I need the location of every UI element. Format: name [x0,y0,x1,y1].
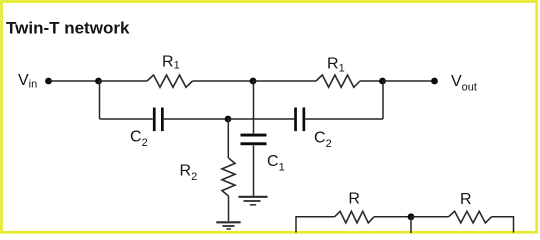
wire R1 right to right junction [360,80,383,82]
svg-text:R: R [348,191,360,208]
wire bottom junction to right R [411,216,449,218]
resistor R (bottom right) zigzag [449,211,492,223]
wire left vertical down [99,81,101,119]
node B junction dot [225,116,232,123]
node right junction dot [379,78,386,85]
wire bottom-left vertical stub [296,217,335,233]
resistor R2 zigzag (vertical) [222,158,235,196]
wire center junction to R1 right [253,80,316,82]
resistor R1 (left) zigzag [147,75,193,87]
node left junction dot [95,78,102,85]
capacitor C2 (left) plates [153,108,156,132]
wire C1 to ground [253,145,255,196]
node Vout terminal dot [431,78,438,85]
wire Vin to left junction [49,80,99,82]
ground under C1 [239,197,268,205]
capacitor C2 (right) plates [294,108,297,132]
wire R2 to ground [228,196,230,221]
node center junction dot (node A) [250,78,257,85]
wire center junction down to C1 [253,81,255,134]
capacitor C1 plates [241,134,267,137]
wire middle rail center segment [164,118,228,120]
wire left junction to R1 left [99,80,148,82]
resistor R1 (right) zigzag [316,75,360,87]
wire bottom junction down [410,217,412,233]
wire bottom rail to junction [374,216,411,218]
resistor R (bottom left) zigzag [335,211,375,223]
wire middle rail right segment [305,118,383,120]
wire R1 left to center junction [193,80,254,82]
svg-text:R: R [460,191,472,208]
wire right vertical down [382,81,384,119]
node Vin terminal dot [45,78,52,85]
ground under R2 [216,222,240,229]
wire right junction to Vout [383,80,435,82]
wire middle rail to right C2 [228,118,294,120]
svg-text:Twin-T network: Twin-T network [6,18,130,37]
node bottom junction dot [408,213,415,220]
wire bottom rail right corner [492,217,514,233]
wire middle rail left segment [100,118,153,120]
wire node B down to R2 [227,119,229,158]
